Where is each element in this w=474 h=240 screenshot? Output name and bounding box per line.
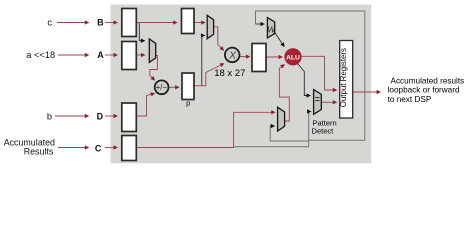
svg-text:W: W [267,26,276,35]
svg-text:loopback or forward: loopback or forward [388,86,460,95]
svg-text:b: b [47,112,52,122]
svg-text:B: B [97,17,104,27]
svg-text:C: C [95,143,102,153]
svg-text:D: D [97,112,104,122]
svg-text:A: A [97,50,104,60]
svg-text:c: c [47,18,52,28]
svg-text:Detect: Detect [312,127,335,136]
svg-text:X: X [228,50,237,62]
svg-text:to next DSP: to next DSP [388,95,432,104]
svg-text:Accumulated results: Accumulated results [391,76,465,85]
svg-text:+/−: +/− [156,83,168,92]
svg-text:ALU: ALU [286,54,300,61]
svg-text:Output Registers: Output Registers [339,48,348,107]
svg-text:a <<18: a <<18 [26,50,55,60]
svg-text:18 x 27: 18 x 27 [214,68,245,79]
svg-text:Results: Results [24,147,54,157]
svg-text:p: p [186,98,190,107]
